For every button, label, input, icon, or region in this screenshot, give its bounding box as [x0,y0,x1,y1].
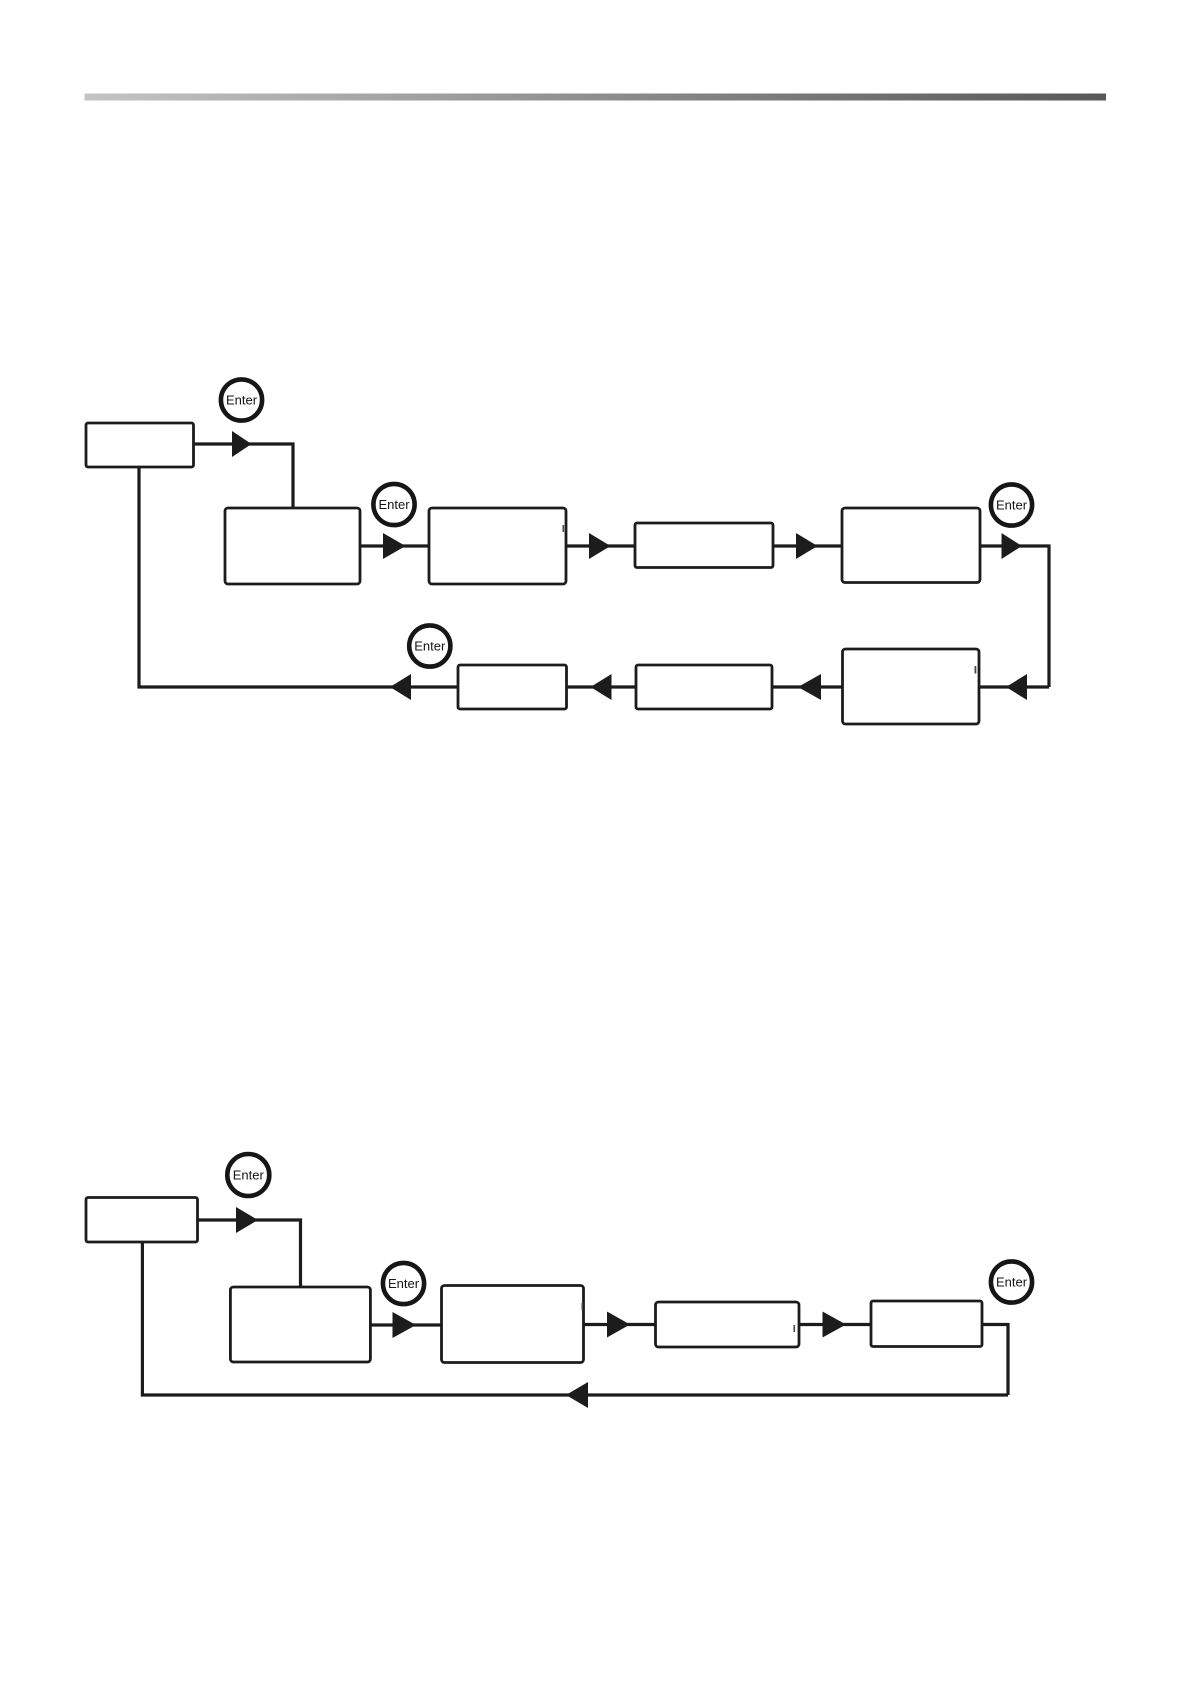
node BOX6 (bottom-right big box) [843,649,980,724]
node BOX3 [429,508,566,584]
node BOX4 (short box top row) [635,523,773,568]
return wire back to BOXA (left then up) [142,1242,1008,1395]
node BOX5 (top-right big box) [842,508,980,583]
arrowhead left A9 [390,674,411,700]
wire BOXE right then down to return line [982,1325,1008,1396]
node BOX7 (bottom left short box) [458,665,567,709]
arrowhead right A2 [383,533,406,559]
wire BOX6 to BOX8 [772,685,843,688]
node BOXB (second level big box) [230,1287,370,1362]
node BOXC (big box) [442,1286,584,1363]
arrowhead right B1 [236,1207,258,1233]
node BOX1 (top-left, first menu level) [86,423,194,467]
arrowhead right B3 [607,1312,630,1338]
svg-text:Enter: Enter [378,497,410,512]
Enter button circle F3 [991,1261,1032,1302]
svg-text:Enter: Enter [233,1168,265,1183]
node BOXE (short box right) [871,1301,982,1347]
arrowhead right A1 [232,431,252,457]
node BOXD (short wide box) [656,1302,800,1347]
wire BOX1 to BOX2 (right then down) [194,444,294,508]
svg-text:Enter: Enter [226,393,258,408]
svg-text:Enter: Enter [414,639,446,654]
arrowhead right B2 [393,1312,417,1338]
Enter button circle F2 [383,1263,424,1304]
wire BOX4 to BOX5 [773,544,842,547]
wire BOX2 to BOX3 [360,544,429,547]
wire BOXA to BOXB (right then down) [198,1220,301,1287]
arrowhead right A4 [796,533,818,559]
Enter button circle F1 [227,1154,269,1196]
wire BOXD to BOXE [799,1323,871,1326]
stray mark in BOXD [794,1325,796,1332]
Enter button circle E2 [373,484,414,525]
wire BOX8 to BOX7 [567,685,637,688]
arrowhead left A6 [1006,674,1027,700]
arrowhead left A7 [798,674,821,700]
arrowhead right A5 [1002,533,1023,559]
arrowhead left A8 [591,674,612,700]
arrowhead left B5 [566,1382,588,1408]
node BOX8 (bottom middle short box) [636,665,772,709]
node BOXA (top-left, first menu level) [86,1198,198,1243]
wire right corner to BOX6 [979,685,1049,688]
stray mark in BOX6 [975,666,977,674]
arrowhead right A3 [589,533,611,559]
arrowhead right B4 [823,1312,847,1338]
wire BOXB to BOXC [370,1323,441,1326]
node BOX2 (second level big box) [225,508,360,584]
Enter button circle E4 [409,625,450,666]
wire BOX7 back up to BOX1 (left then up) [139,467,458,687]
svg-text:Enter: Enter [996,498,1028,513]
svg-text:Enter: Enter [996,1275,1028,1290]
wire BOX5 right then down to return row [980,546,1049,687]
stray mark in BOXC [582,1303,584,1310]
svg-text:Enter: Enter [388,1276,420,1291]
wire BOX3 to BOX4 [566,544,635,547]
wire BOXC to BOXD [584,1323,656,1326]
stray mark in BOX3 [563,525,565,532]
header rule bar [85,94,1107,101]
Enter button circle E3 [991,484,1032,525]
Enter button circle E1 [221,379,262,420]
